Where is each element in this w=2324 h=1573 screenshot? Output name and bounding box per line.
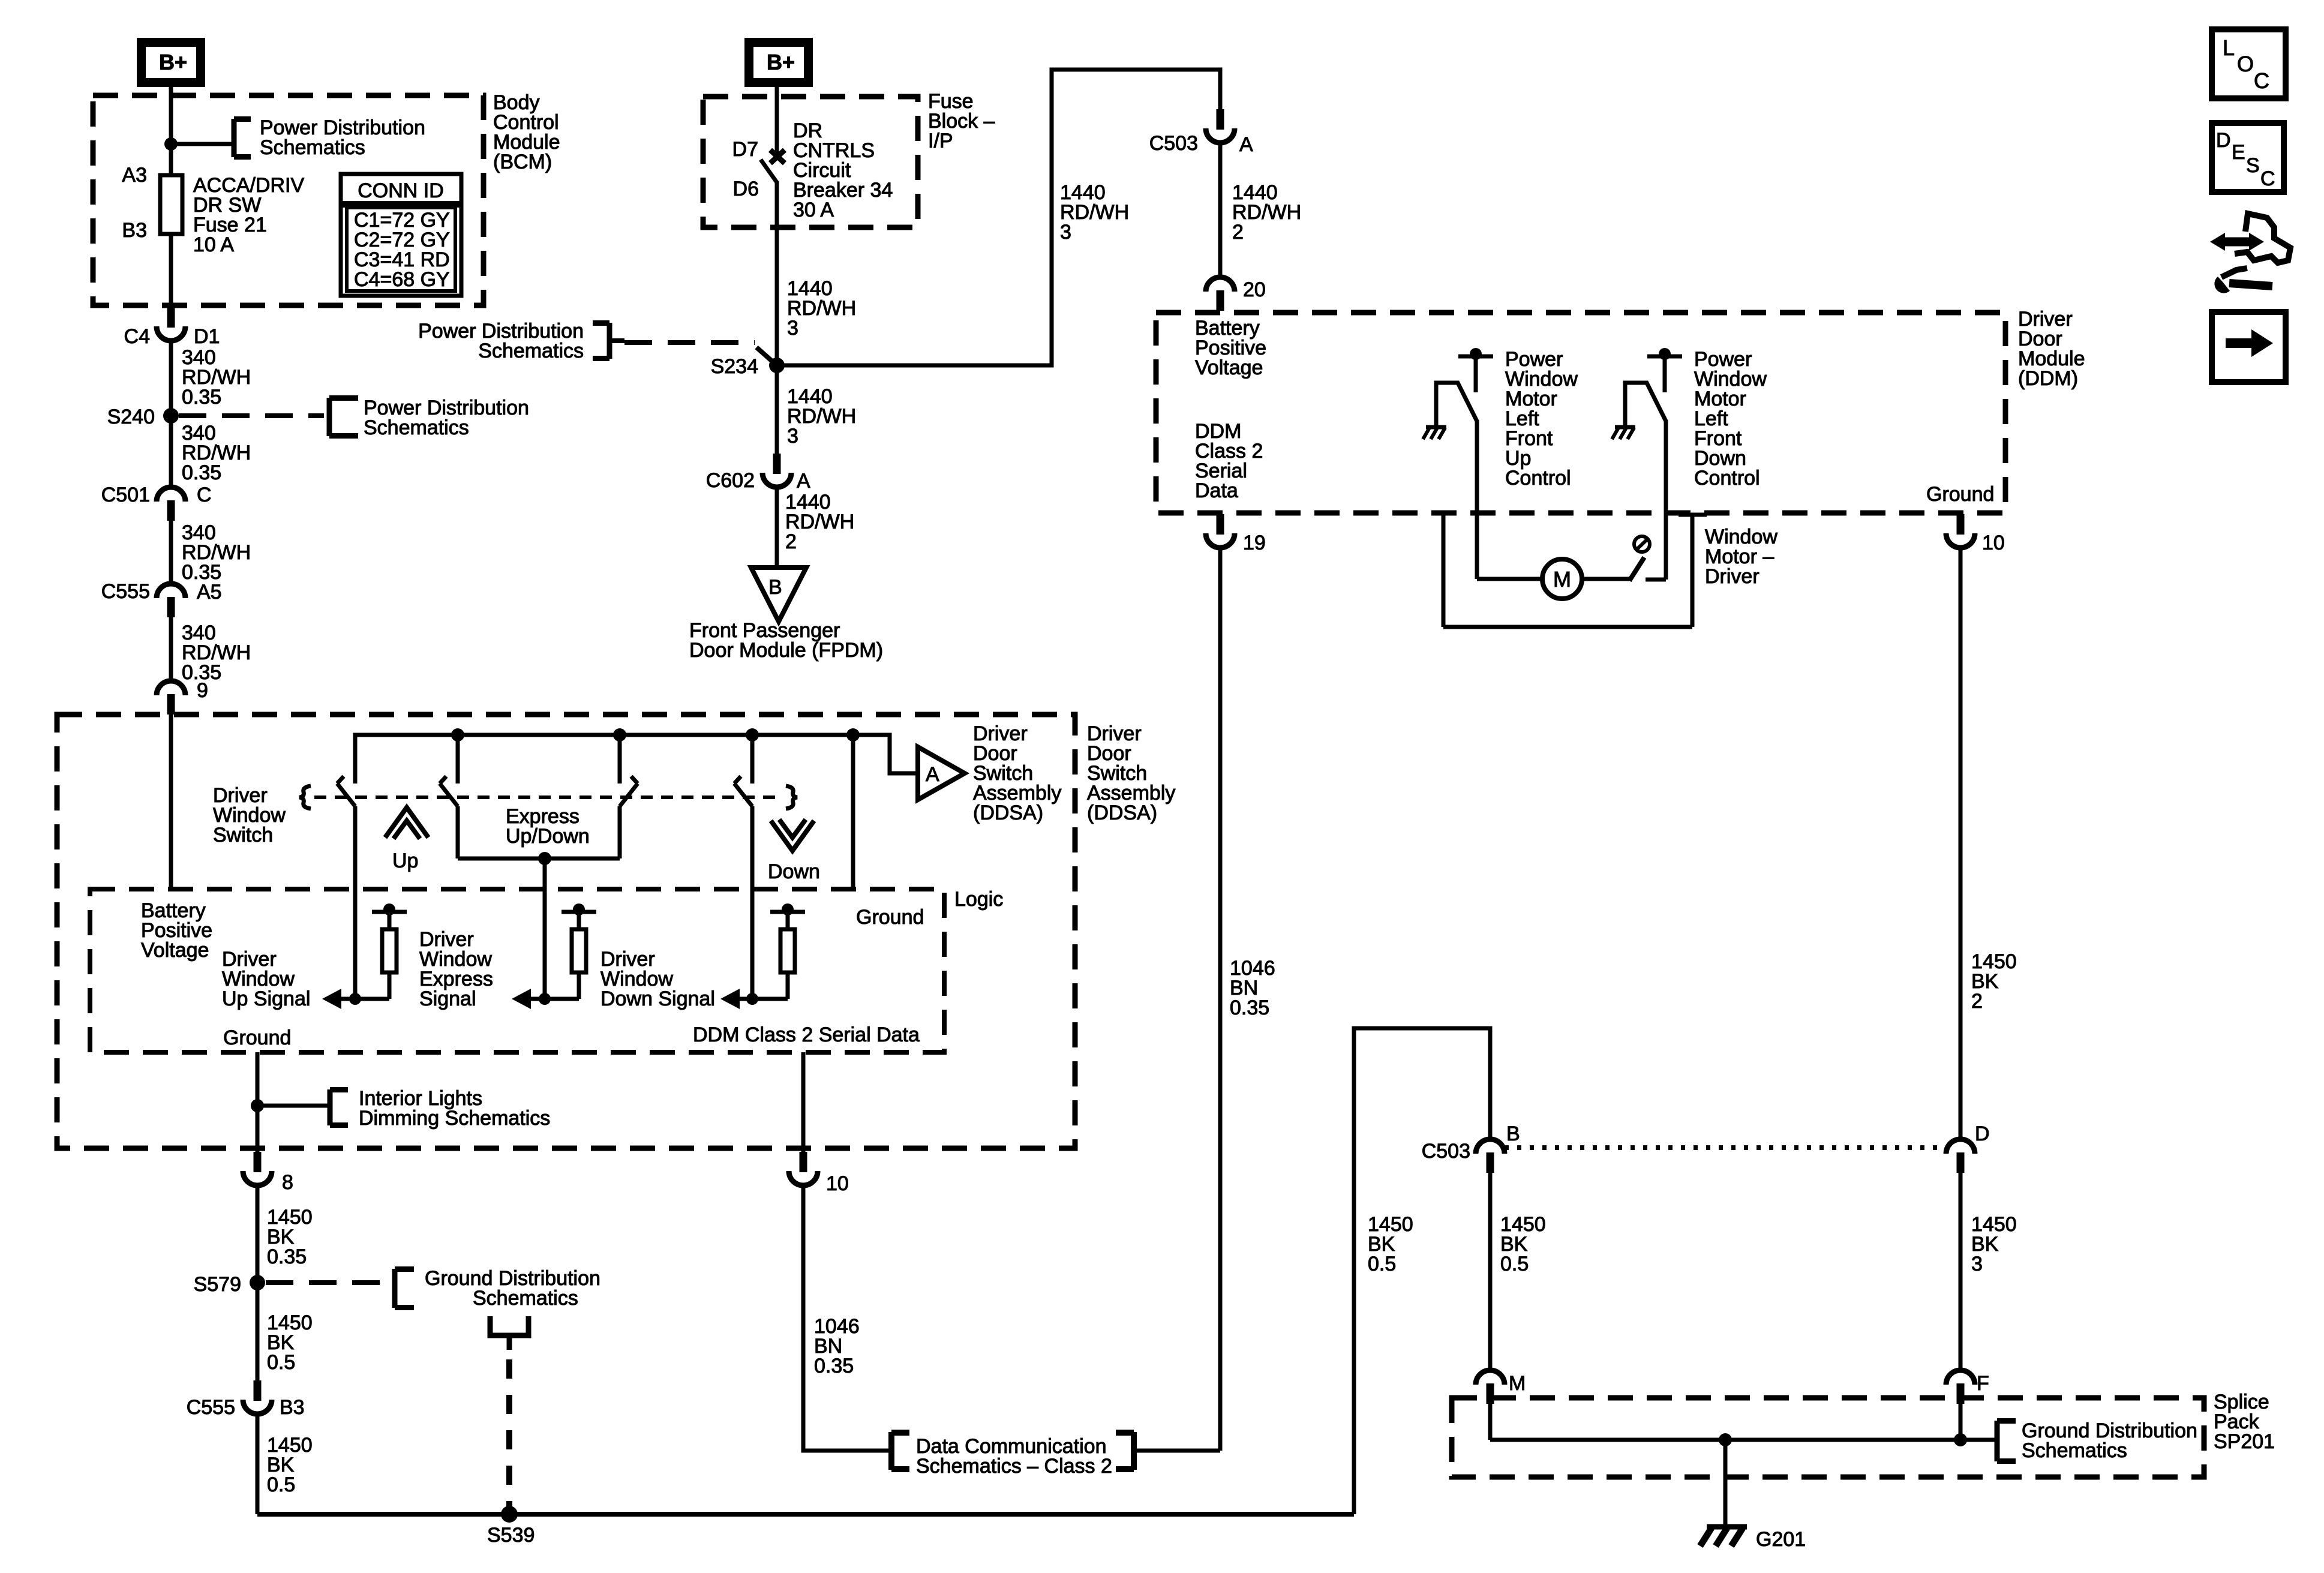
signal arrow: driver window up signal — [341, 997, 389, 1001]
ground symbol (down control) — [1615, 425, 1635, 430]
svg-text:S539: S539 — [487, 1524, 535, 1547]
svg-text:G201: G201 — [1756, 1528, 1806, 1551]
wire express tap to logic — [543, 858, 547, 999]
svg-text:19: 19 — [1243, 532, 1266, 554]
icon box LOC — [2212, 29, 2286, 98]
svg-text:(DDSA): (DDSA) — [973, 801, 1043, 824]
svg-text:Up: Up — [392, 849, 418, 872]
dashed wire ground distribution to S539 — [506, 1359, 512, 1507]
wire motor right lead — [1582, 577, 1629, 581]
reference bracket Data Communication right — [1131, 1432, 1137, 1470]
fuse F21 ACCA/DRIV DR SW 10A — [160, 175, 182, 234]
svg-text:E: E — [2232, 141, 2245, 164]
mechanical link dashed line — [314, 795, 782, 799]
svg-text:3: 3 — [1971, 1253, 1983, 1275]
off-page triangle B (to FPDM) — [751, 568, 806, 622]
svg-text:C503: C503 — [1422, 1140, 1470, 1163]
circuit breaker 34 contact cross — [770, 150, 785, 163]
reference bracket Data Communication left — [888, 1432, 894, 1470]
node down signal junction — [746, 993, 758, 1005]
svg-text:0.5: 0.5 — [267, 1351, 295, 1374]
svg-text:C501: C501 — [101, 484, 150, 506]
switch: express right arm — [618, 735, 622, 784]
wire DDM 10 ground down to C503-D — [1959, 547, 1963, 1139]
wire C555-B3 down to ground rail — [256, 1413, 260, 1514]
wire pin 8 to splice S579 — [256, 1184, 260, 1283]
wire C555 to DDSA pin 9 — [169, 616, 173, 681]
signal arrow: driver window express signal — [531, 997, 579, 1001]
wire C503-B to splice pack pin M — [1488, 1172, 1493, 1370]
wire B+ to circuit breaker — [775, 87, 779, 154]
wire up-control arm to motor — [1475, 420, 1479, 579]
icon diagnostic car with double arrow — [2222, 238, 2252, 247]
svg-text:C555: C555 — [101, 580, 150, 603]
connector DDSA pin 10 — [800, 1152, 807, 1172]
wire pin F into splice bus — [1959, 1403, 1963, 1440]
svg-text:Data: Data — [1195, 479, 1238, 502]
svg-text:0.5: 0.5 — [1500, 1253, 1529, 1275]
symbol up chevron — [385, 807, 428, 837]
svg-text:B3: B3 — [280, 1396, 305, 1419]
svg-text:0.35: 0.35 — [1230, 996, 1269, 1019]
connector symbol to ground distribution — [490, 1316, 529, 1335]
connector C501 pin C — [157, 487, 185, 502]
connector DDM pin 10 (ground) — [1957, 514, 1965, 535]
svg-text:A: A — [1239, 133, 1253, 156]
node: B+ distribution junction in BCM — [164, 137, 178, 151]
svg-text:0.35: 0.35 — [182, 386, 221, 409]
wire motor case loop bottom — [1443, 625, 1692, 629]
wire pin 9 to logic box (battery positive voltage) — [169, 713, 173, 889]
svg-text:0.35: 0.35 — [182, 461, 221, 484]
connector DDSA pin 9 — [157, 681, 185, 695]
svg-text:M: M — [1509, 1372, 1526, 1395]
wire C503-A to DDM pin 20 — [1218, 142, 1223, 277]
svg-text:Ground: Ground — [856, 906, 924, 929]
svg-text:8: 8 — [282, 1171, 293, 1194]
svg-text:0.35: 0.35 — [267, 1245, 307, 1268]
svg-text:Voltage: Voltage — [1195, 356, 1263, 379]
svg-text:F: F — [1977, 1372, 1989, 1395]
reference bracket Ground Distribution Schematics (S579) — [392, 1269, 398, 1308]
window motor M (driver) — [1542, 559, 1582, 599]
svg-text:Down Signal: Down Signal — [600, 987, 715, 1010]
svg-text:A5: A5 — [197, 581, 222, 604]
svg-text:30 A: 30 A — [793, 199, 834, 221]
switch: driver window down — [750, 735, 755, 784]
mechanical link brace left — [299, 786, 311, 809]
wire DDSA supply bus — [355, 735, 918, 784]
wire splice bus to ground G201 — [1724, 1440, 1728, 1525]
wire up switch to logic — [353, 806, 358, 999]
wire right bracket to DDM-19 wire — [1134, 1449, 1220, 1453]
svg-text:(DDSA): (DDSA) — [1087, 801, 1157, 824]
node splice bus to ground tap — [1719, 1433, 1732, 1446]
connector C4 pin D1 — [167, 307, 175, 328]
reference bracket Power Distribution Schematics (BCM) — [232, 119, 237, 157]
svg-text:3: 3 — [787, 317, 798, 340]
svg-text:Door Module (FPDM): Door Module (FPDM) — [689, 639, 883, 662]
connector DDM pin 20 — [1206, 277, 1235, 292]
svg-text:Schematics: Schematics — [478, 340, 584, 362]
svg-text:Down: Down — [768, 860, 820, 883]
dashed reference wire from S579 — [266, 1280, 384, 1285]
relay contact: power window motor left front up control — [1470, 348, 1482, 360]
svg-text:B+: B+ — [767, 50, 795, 74]
svg-text:C4: C4 — [124, 325, 150, 348]
connector C503 pin B — [1476, 1139, 1505, 1154]
svg-text:3: 3 — [1060, 221, 1071, 244]
circuit breaker 34 arm — [761, 160, 777, 182]
svg-text:Logic: Logic — [954, 888, 1003, 911]
power symbol B+ (BCM) — [137, 38, 205, 87]
splice S539 — [501, 1506, 518, 1523]
svg-text:Control: Control — [1694, 467, 1760, 490]
connector C503 pin D — [1946, 1139, 1975, 1154]
svg-text:D1: D1 — [194, 325, 220, 348]
svg-text:D6: D6 — [733, 178, 759, 200]
wire S579 to connector C555 B3 — [256, 1283, 260, 1380]
motor thermal cutout contact arm — [1629, 557, 1644, 581]
switch: driver window up — [337, 784, 355, 806]
wire ground rail up to C503-B branch — [1354, 1028, 1490, 1514]
svg-text:Control: Control — [1505, 467, 1571, 490]
svg-text:C503: C503 — [1149, 132, 1198, 155]
svg-text:Schematics – Class 2: Schematics – Class 2 — [916, 1455, 1112, 1478]
connector C555 pin B3 — [254, 1380, 262, 1401]
splice S234 — [769, 358, 785, 373]
svg-text:C: C — [197, 484, 212, 506]
node bus junction down switch feed — [746, 728, 759, 742]
svg-text:S234: S234 — [711, 355, 758, 378]
svg-text:Dimming Schematics: Dimming Schematics — [359, 1107, 550, 1130]
wire fuse B3 to connector C4 — [169, 234, 173, 310]
wire express common bar — [458, 857, 620, 861]
svg-text:S579: S579 — [194, 1273, 241, 1296]
icon box DESC — [2212, 123, 2284, 192]
symbol down chevron — [771, 821, 814, 851]
svg-text:0.5: 0.5 — [267, 1473, 295, 1496]
splice S240 — [163, 408, 179, 424]
icon box forward arrow — [2212, 312, 2286, 382]
svg-text:D: D — [2216, 129, 2231, 152]
node bus junction ground wire — [846, 728, 860, 742]
svg-text:Ground: Ground — [1926, 483, 1994, 506]
wire S234 branch to DDM battery feed — [777, 70, 1220, 365]
DDSA dashed box — [57, 715, 1075, 1148]
svg-text:C555: C555 — [187, 1396, 235, 1419]
connector DDM pin 19 — [1217, 514, 1224, 535]
wire B+ to BCM box / fuse 21 — [169, 87, 173, 175]
wire logic serial data down — [801, 1052, 806, 1152]
svg-text:3: 3 — [787, 425, 798, 448]
wire ground feed to logic — [851, 735, 855, 889]
reference bracket Interior Lights Dimming Schematics — [328, 1089, 333, 1125]
svg-text:0.35: 0.35 — [814, 1355, 854, 1377]
splice S579 — [250, 1275, 265, 1290]
wire motor left lead — [1477, 577, 1542, 581]
wire C503-D to splice pack pin F — [1959, 1172, 1963, 1370]
svg-text:10: 10 — [1982, 532, 2005, 554]
svg-text:C4=68 GY: C4=68 GY — [354, 268, 450, 291]
svg-text:10 A: 10 A — [193, 233, 234, 256]
dashed reference wire to S234 — [624, 340, 755, 345]
svg-text:2: 2 — [1971, 990, 1983, 1013]
svg-text:D7: D7 — [732, 138, 758, 161]
svg-text:Driver: Driver — [1705, 565, 1759, 588]
svg-text:CONN ID: CONN ID — [358, 179, 444, 202]
svg-text:(BCM): (BCM) — [493, 151, 552, 173]
svg-text:10: 10 — [826, 1172, 849, 1195]
splice pack bus wire — [1490, 1438, 1997, 1442]
icon wrench — [2214, 277, 2230, 293]
ground symbol (up control) — [1426, 425, 1446, 430]
resistor pull-up (express signal) — [573, 903, 585, 915]
ground rail wire — [257, 1512, 1354, 1517]
svg-text:B+: B+ — [159, 50, 187, 74]
svg-text:Schematics: Schematics — [473, 1287, 578, 1310]
node bus junction express right feed — [613, 728, 626, 742]
svg-text:SP201: SP201 — [2214, 1430, 2275, 1453]
wire pin M into splice bus — [1488, 1403, 1493, 1440]
svg-text:C602: C602 — [706, 469, 755, 492]
svg-text:A: A — [926, 763, 939, 786]
node splice bus / F junction — [1954, 1433, 1967, 1446]
svg-text:0.5: 0.5 — [1368, 1253, 1396, 1275]
svg-text:2: 2 — [1232, 221, 1244, 244]
svg-text:L: L — [2223, 35, 2235, 60]
fuse block I/P dashed box — [703, 97, 918, 227]
wire DDM 19 serial data down — [1218, 547, 1223, 1451]
connector DDSA pin 8 — [254, 1152, 262, 1172]
splice pack SP201 dashed box — [1452, 1398, 2204, 1477]
svg-text:Up Signal: Up Signal — [222, 987, 310, 1010]
wire breaker D6 down to S234 — [775, 181, 779, 365]
resistor pull-up (up signal) — [383, 903, 395, 915]
power symbol B+ (fuse block) — [744, 38, 813, 87]
ground G201 symbol — [1707, 1524, 1747, 1530]
node express signal junction — [539, 993, 551, 1005]
svg-text:M: M — [1553, 567, 1571, 592]
dotted connector line C503 B-D — [1505, 1145, 1946, 1150]
node bus junction up switch feed — [451, 728, 464, 742]
svg-text:B: B — [1506, 1122, 1520, 1145]
thermal protector symbol (circle with slash) — [1634, 536, 1650, 552]
connector C503 pin A — [1217, 109, 1224, 130]
svg-text:I/P: I/P — [928, 130, 953, 152]
table CONN ID (BCM connectors) — [341, 174, 461, 296]
connector C602 pin A — [773, 454, 781, 474]
reference bracket Power Distribution Schematics (S240) — [327, 398, 332, 436]
BCM module dashed box — [93, 95, 484, 305]
svg-text:B: B — [768, 576, 782, 599]
svg-text:Up/Down: Up/Down — [506, 825, 590, 848]
svg-text:A: A — [797, 470, 810, 493]
connector SP201 pin M — [1476, 1370, 1505, 1385]
svg-text:B3: B3 — [122, 219, 147, 242]
wire C501 to connector C555 — [169, 520, 173, 584]
svg-text:(DDM): (DDM) — [2018, 367, 2078, 390]
dashed reference wire from S240 — [179, 413, 324, 418]
svg-text:Schematics: Schematics — [260, 136, 365, 159]
svg-text:9: 9 — [197, 679, 208, 702]
node up signal junction — [349, 993, 361, 1005]
svg-text:Signal: Signal — [419, 987, 476, 1010]
svg-text:Schematics: Schematics — [2022, 1439, 2127, 1462]
wire logic ground down — [256, 1052, 260, 1152]
svg-text:D: D — [1975, 1122, 1990, 1145]
signal arrow: driver window down signal — [740, 997, 788, 1001]
wire C602 to FPDM triangle — [775, 486, 779, 568]
svg-text:S240: S240 — [107, 406, 155, 428]
wire S240 to connector C501 — [169, 416, 173, 487]
wire C4 to splice S240 — [169, 340, 173, 416]
wire pin 10 to data communication reference — [803, 1184, 889, 1451]
wire junction to reference bracket — [171, 142, 234, 146]
svg-text:Schematics: Schematics — [364, 416, 469, 439]
svg-text:C: C — [2254, 68, 2269, 93]
svg-text:A3: A3 — [122, 164, 147, 187]
svg-text:C: C — [2260, 167, 2275, 190]
switch: express left arm — [456, 735, 460, 784]
connector SP201 pin F — [1946, 1370, 1975, 1385]
wire down-control arm to motor contact — [1664, 420, 1668, 580]
wire motor case loop (right pin) — [1691, 515, 1695, 627]
DDM dashed box — [1156, 313, 2005, 513]
svg-text:S: S — [2246, 154, 2260, 177]
wire motor case loop (left pin) — [1442, 511, 1446, 627]
svg-text:O: O — [2237, 52, 2254, 76]
svg-text:2: 2 — [785, 530, 797, 553]
node interior lights tap — [251, 1099, 264, 1112]
svg-text:Switch: Switch — [213, 824, 273, 846]
connector C555 pin A5 — [157, 584, 185, 598]
wire S234 to connector C602 — [775, 365, 779, 454]
node express tap — [538, 852, 551, 865]
logic dashed box — [90, 889, 944, 1052]
resistor pull-up (down signal) — [782, 903, 794, 915]
svg-text:Voltage: Voltage — [141, 939, 209, 962]
off-page triangle A (DDSA serial data) — [918, 747, 965, 800]
reference bracket Ground Distribution Schematics (SP201) — [1995, 1421, 2000, 1461]
mechanical link brace right — [786, 786, 797, 809]
svg-text:DDM Class 2 Serial Data: DDM Class 2 Serial Data — [693, 1023, 920, 1046]
reference bracket (right style) — [607, 323, 612, 359]
relay contact: power window motor left front down control — [1659, 348, 1671, 360]
svg-text:Ground: Ground — [223, 1026, 291, 1049]
svg-text:20: 20 — [1243, 278, 1266, 301]
